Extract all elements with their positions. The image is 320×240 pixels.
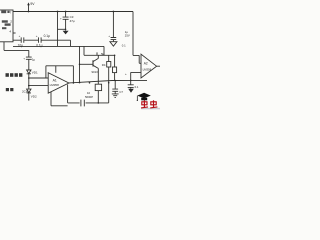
svg-text:LM358: LM358 (50, 83, 60, 87)
svg-text:LM358: LM358 (143, 68, 152, 72)
svg-text:+: + (60, 16, 62, 20)
svg-text:+: + (125, 72, 127, 76)
svg-text:C7: C7 (119, 90, 123, 94)
svg-text:0.1μ: 0.1μ (36, 43, 42, 47)
svg-text:+: + (36, 34, 38, 38)
svg-text:25V: 25V (125, 34, 130, 38)
svg-text:0.1: 0.1 (135, 85, 139, 89)
svg-text:1μ: 1μ (32, 57, 36, 61)
svg-text:47μ: 47μ (70, 19, 75, 23)
svg-text:9V: 9V (30, 2, 35, 6)
svg-text:9013: 9013 (92, 70, 99, 74)
svg-text:+: + (23, 56, 25, 60)
svg-text:R4: R4 (102, 63, 106, 67)
svg-text:+: + (19, 34, 21, 38)
svg-text:A2: A2 (144, 62, 148, 66)
svg-text:5600P: 5600P (85, 95, 93, 99)
svg-text:VD2: VD2 (31, 95, 37, 99)
svg-text:10μ: 10μ (18, 43, 24, 47)
svg-text:0.1: 0.1 (122, 44, 126, 48)
svg-text:+: + (108, 34, 110, 38)
svg-text:A1: A1 (53, 79, 57, 83)
svg-text:2CW: 2CW (22, 89, 29, 93)
svg-text:VD1: VD1 (32, 71, 38, 75)
svg-text:0.1μ: 0.1μ (44, 34, 50, 38)
